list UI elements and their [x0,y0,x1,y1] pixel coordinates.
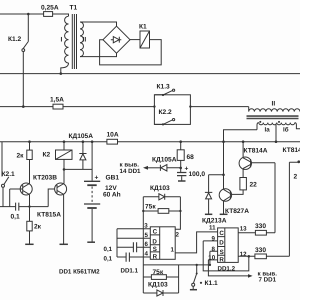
svg-text:75к: 75к [153,269,164,276]
svg-text:К2: К2 [43,152,51,159]
fuse FU1 0,25A [44,12,53,17]
wire bridge right to relay K1 [130,39,140,41]
diode KD213A [222,174,225,177]
svg-text:КД105А: КД105А [152,157,177,164]
svg-text:0,1: 0,1 [104,246,113,253]
wire KT827A emitter to ground [223,201,225,214]
wire secondary top to bridge [80,22,117,26]
svg-text:D: D [219,240,224,247]
svg-text:R: R [153,254,158,261]
svg-text:КД103: КД103 [148,282,168,289]
svg-text:К1: К1 [139,24,147,31]
svg-text:Iб: Iб [283,127,289,134]
T1 primary winding I [53,14,69,74]
svg-text:6: 6 [145,241,149,248]
svg-text:60 Ah: 60 Ah [103,192,121,199]
capacitor 100,0 electrolytic [180,168,182,172]
wire Q1 emitter down [29,195,31,207]
svg-text:75к: 75к [145,204,156,211]
wire Q2 collector / emitter [63,169,65,244]
svg-text:I: I [61,37,63,44]
diode KD105A flyback [82,140,85,143]
R pin wire to arrow 7 DD1 [208,260,248,276]
svg-text:R: R [219,257,224,264]
transformer T2 winding II [249,107,300,112]
svg-text:100,0: 100,0 [189,171,206,178]
long vertical feedback wire [142,211,144,265]
svg-text:II: II [83,37,87,44]
svg-text:0,1: 0,1 [11,214,20,221]
IC DD1.1 [150,227,175,259]
diode KD103 upper combo [143,194,180,200]
ground bar Q1 chain [25,243,33,245]
svg-text:0,1: 0,1 [104,256,113,263]
svg-text:Т1: Т1 [70,5,78,12]
svg-text:1,5А: 1,5А [50,97,64,104]
wire Ia to KT827 collector [224,130,258,190]
svg-text:К2.2: К2.2 [159,109,173,116]
resistor 2k upper [28,140,31,143]
svg-text:2к: 2к [34,224,42,231]
DD1.2 pin 13 wire and resistor 330 [238,232,275,234]
node primary to rail B [60,72,63,75]
svg-text:5: 5 [145,232,149,239]
wire K1.2 to rail C [22,52,24,107]
T1 secondary winding II [80,22,83,57]
svg-text:К1.2: К1.2 [8,36,22,43]
svg-text:КД103: КД103 [150,185,170,192]
svg-text:КД105А: КД105А [69,133,94,140]
switch K1.3 contact [154,90,172,95]
T2 winding Ib [277,123,300,129]
svg-text:К1.3: К1.3 [157,84,171,91]
capacitor 0,1 osc lower [126,253,129,262]
svg-text:КД213А: КД213А [202,218,227,225]
wire DD1.1 pin1 to DD1.2 pin11 [175,232,217,253]
fuse FU3 10A [107,139,118,144]
wire rail C [0,106,249,108]
svg-text:КТ827А: КТ827А [225,208,249,215]
transistor KT814A first [242,140,245,143]
svg-text:C: C [219,230,224,237]
svg-text:330: 330 [255,223,266,230]
S pin drop [209,251,211,265]
svg-text:КТ815А: КТ815А [37,212,61,219]
bridge inner diode [111,37,122,43]
svg-text:2: 2 [294,174,298,181]
capacitor 0,1 base [0,206,48,208]
svg-text:Iа: Iа [265,127,271,134]
feedback Q to D wire [248,255,251,258]
switch K2.2 contact [154,120,172,125]
ground bar battery [87,241,95,243]
node top junction [27,13,30,16]
contact box K1.3 / K2.2 [154,95,190,125]
wire node to battery line [64,168,92,170]
wire 2k to Q1 [29,160,31,184]
relay K1 coil [140,31,150,48]
switch K1.2 [23,14,28,49]
IC DD1.2 [218,228,239,263]
wire bridge left loop [100,40,162,65]
wire rail D battery plus [0,141,300,143]
wire rail B neutral [0,73,300,75]
svg-text:9: 9 [212,236,216,243]
svg-text:2к: 2к [17,153,25,160]
resistor 2k lower [29,207,31,222]
wire to Q2 base [48,189,57,207]
resistor 75k lower combo [143,265,178,293]
node box left [153,105,155,107]
svg-text:0,25A: 0,25A [41,5,59,12]
svg-text:GB1: GB1 [106,175,120,182]
svg-text:2: 2 [176,232,180,239]
svg-text:13: 13 [240,226,247,233]
svg-text:330: 330 [255,247,266,254]
capacitor 0,1 osc upper [133,242,136,252]
svg-text:C: C [153,229,158,236]
battery GB1 [91,140,94,143]
DD1.1 pin wires left [117,229,150,257]
svg-text:DD1.2: DD1.2 [218,266,236,273]
wire K2 to node [63,159,65,169]
svg-text:КТ203В: КТ203В [33,175,57,182]
winding polarity dots [259,121,261,123]
diode KD103 lower combo [143,290,178,296]
svg-text:DD1.1: DD1.1 [121,268,139,275]
switch K1.1 [193,265,196,283]
svg-text:4: 4 [145,251,149,258]
transistor KT827A [219,189,231,201]
resistor 68 [179,140,182,143]
wire lower combo node [143,264,210,266]
node box right [189,105,191,107]
svg-text:7 DD1: 7 DD1 [259,276,277,283]
svg-text:+: + [95,175,99,182]
svg-text:11: 11 [209,225,216,232]
svg-text:10А: 10А [107,132,119,139]
svg-text:II: II [272,101,276,108]
DD1.2 pin wires left [203,241,217,260]
T1 core [72,14,76,69]
svg-text:68: 68 [187,154,195,161]
svg-text:8: 8 [212,246,216,253]
arrow wire to 14 DD1 [145,167,160,169]
T2 winding Ia [257,123,277,130]
transistor Q1 KT203B [20,183,32,195]
svg-text:КТ814: КТ814 [283,147,301,154]
svg-text:S: S [220,249,224,256]
ground bar Q2 [60,243,68,245]
svg-text:S: S [153,246,157,253]
svg-text:3: 3 [144,222,148,229]
wire top mains rail [0,13,69,15]
svg-text:D: D [152,238,157,245]
node on rail C [22,105,25,108]
wire secondary bottom to bridge [80,53,117,56]
svg-text:КТ814А: КТ814А [244,148,268,155]
resistor 75k upper combo [142,210,144,212]
svg-text:12: 12 [240,251,247,258]
transistor Q2 KT815A [55,183,67,195]
svg-text:1: 1 [171,247,175,254]
wire 330 upper riser [274,163,276,233]
T2 core [247,116,299,118]
diode bridge VD [103,26,130,53]
resistor 22 [242,169,244,178]
svg-text:14 DD1: 14 DD1 [120,168,142,175]
svg-text:К1.1: К1.1 [205,280,219,287]
svg-text:DD1 К561ТМ2: DD1 К561ТМ2 [59,269,100,276]
DD1.2 pin 12 wire and resistor 330 [238,255,289,257]
svg-text:22: 22 [250,182,258,189]
wire 22 to KT827A base [230,190,243,195]
fuse FU2 1,5A [53,104,63,109]
relay K2 coil [63,140,66,143]
wire center tap to rail D [275,124,277,142]
wire combo to DD1.1 pin2 [175,211,180,229]
